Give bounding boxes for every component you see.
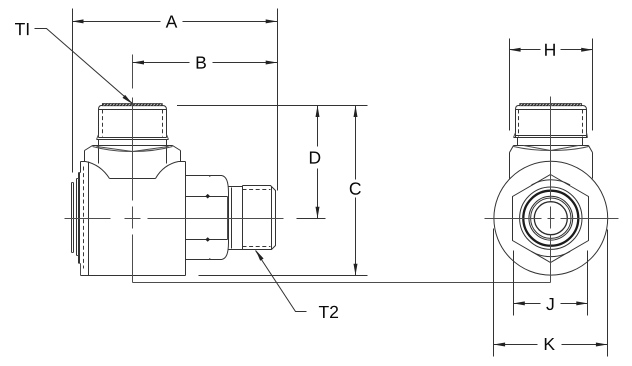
- inner circle r16.5: [534, 202, 567, 235]
- dimension C/D top reference line: [177, 105, 368, 107]
- dimension A extension lines: [73, 9, 278, 191]
- right port dashed thread lines: [518, 110, 520, 137]
- dimension B arrows: [133, 61, 145, 65]
- right view vertical centerline: [550, 97, 552, 283]
- dimension H extension lines: [510, 39, 593, 131]
- side hex facet vertex dots: [205, 194, 210, 199]
- hex chamfer arcs: [532, 180, 571, 185]
- dimension D bottom reference tick: [297, 218, 326, 220]
- dimension C arrows: [354, 106, 358, 118]
- top hex: shallow face arcs: [93, 147, 173, 152]
- side hex facet vertex ticks: [209, 176, 211, 260]
- right port outline: [516, 106, 587, 138]
- left view vertical centerline: [132, 55, 134, 283]
- right port neck: [518, 138, 583, 146]
- right hex band top edge: [514, 145, 589, 147]
- inner circle r21.9: [529, 196, 573, 240]
- top hex: facet V lines: [97, 147, 169, 152]
- right hex band arcs: [514, 147, 589, 151]
- dimension J arrows: [513, 301, 525, 305]
- leader T2: [256, 251, 307, 312]
- body internal vertical edge: [88, 162, 90, 276]
- right hex band side verticals: [510, 153, 593, 179]
- dimension K line: [494, 344, 608, 346]
- dimension J extension lines: [514, 251, 588, 316]
- top hex: side verticals: [85, 151, 181, 162]
- side hex washer face inner line: [227, 197, 229, 240]
- side port neck shoulder: [231, 188, 233, 249]
- top port T1 bottom double line: [97, 138, 169, 140]
- dimension D arrows: [316, 106, 320, 118]
- dimension C line: [355, 106, 357, 276]
- top port T1 thread crest hatch band: [102, 104, 162, 106]
- leader TI arrowhead: [123, 95, 133, 104]
- top port T1 outline: [99, 106, 167, 138]
- projection line to right view: [133, 282, 551, 284]
- boss pad line: [110, 178, 156, 180]
- right view horizontal centerline: [485, 218, 619, 220]
- right port second top line: [516, 109, 587, 111]
- dimension K arrows: [494, 343, 506, 347]
- body block outline: [81, 162, 186, 276]
- thread circle r31: [520, 187, 582, 249]
- leader T2 arrowhead: [256, 250, 264, 261]
- right hex band facet V: [524, 146, 579, 151]
- label T2: [319, 306, 338, 318]
- side hex facet lines: [186, 197, 228, 240]
- right view block side edges: [494, 229, 608, 357]
- dimension A label: [166, 16, 178, 28]
- right port hatch band: [520, 104, 582, 106]
- left view horizontal centerline: [65, 218, 284, 220]
- dimension C label: [350, 182, 361, 194]
- top port T1 bottom corner flares: [97, 135, 169, 140]
- top port boss silhouette lines: [99, 140, 167, 164]
- inner circle r20.2: [531, 198, 571, 238]
- dimension A arrows: [72, 19, 84, 23]
- dimension D label: [310, 152, 320, 164]
- dimension A line: [73, 21, 278, 23]
- back boss cap plate joins: [72, 173, 81, 276]
- side hex nut outline: [186, 176, 229, 260]
- back boss dashed line: [83, 167, 85, 269]
- leader TI: [35, 29, 133, 104]
- top hex: end chamfers: [85, 146, 181, 151]
- side port male thread T2 outline: [243, 186, 276, 250]
- back boss cap plates: [72, 173, 80, 264]
- label TI: [15, 23, 29, 35]
- side port thread end double line: [271, 187, 273, 250]
- top port T1 thread dashed lines: [102, 110, 104, 137]
- dimension D line: [317, 106, 319, 219]
- thick tube circle r27.5: [523, 191, 578, 246]
- dimension B label: [197, 57, 206, 69]
- top hex: top edge: [93, 145, 173, 147]
- dimension H arrows: [509, 48, 520, 52]
- dimension K label: [545, 338, 555, 350]
- dimension B line: [133, 62, 278, 64]
- dimension J label: [546, 298, 553, 310]
- hex nut hexagon: [513, 175, 589, 263]
- dimension J line: [514, 303, 588, 305]
- right port bottom corner flares: [514, 133, 588, 138]
- big round flange circle: [494, 161, 608, 275]
- body shoulder lines: [81, 161, 186, 163]
- side port thread dashed root lines: [243, 189, 271, 191]
- dimension H label: [545, 44, 555, 56]
- dimension C bottom reference line: [199, 275, 368, 277]
- right hex band end chamfers: [510, 146, 593, 153]
- dimension H line: [510, 49, 593, 51]
- boss fillet arcs: [86, 162, 110, 179]
- right port bottom double line: [514, 136, 588, 138]
- top port T1 second top line: [99, 109, 167, 111]
- side port neck lines: [229, 187, 243, 250]
